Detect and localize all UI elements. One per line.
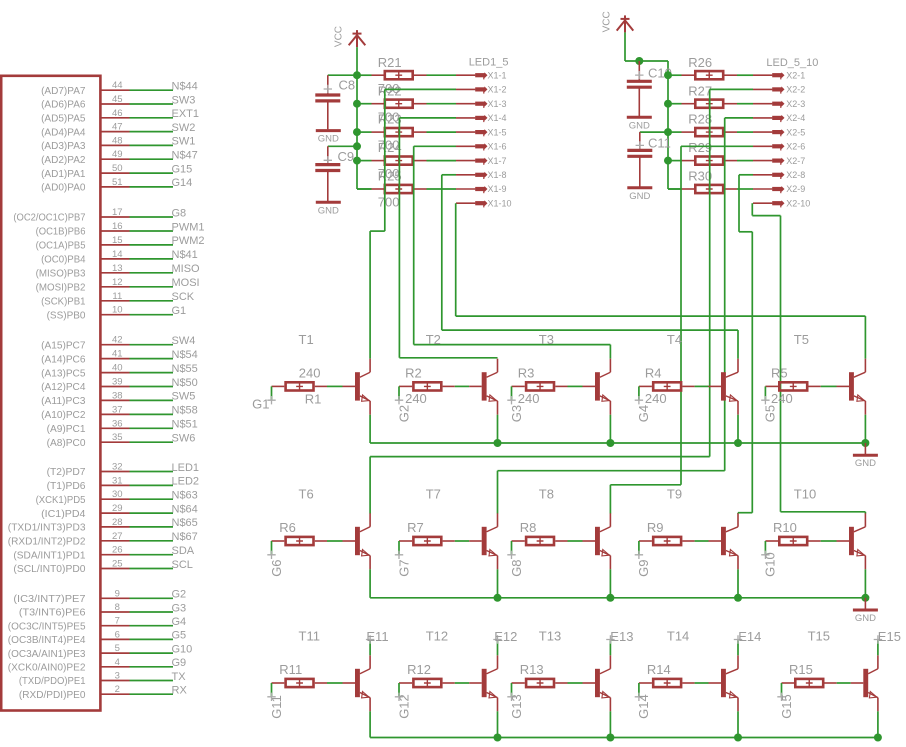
ground GND below C10 (627, 117, 652, 131)
IC pin 7 (OC3C/INT5)PE5 net G4 (8, 616, 186, 633)
connector pin X2-4 (753, 115, 785, 122)
svg-text:T13: T13 (539, 629, 561, 644)
IC pin 17 (OC2/OC1C)PB7 net G8 (13, 207, 186, 224)
transistor T12 (482, 655, 498, 711)
resistor R23 (700) (357, 128, 427, 136)
svg-text:G1: G1 (172, 305, 187, 317)
svg-text:T2: T2 (426, 332, 441, 347)
svg-text:PWM2: PWM2 (172, 235, 205, 247)
transistor T11 (355, 655, 370, 711)
net stub G15 (781, 683, 783, 697)
svg-text:(IC1)PD4: (IC1)PD4 (41, 508, 86, 520)
transistor T8 (595, 513, 610, 569)
resistor R15 (782, 679, 837, 687)
svg-text:G10: G10 (763, 552, 778, 577)
wire base of T15 (837, 682, 864, 684)
label G13 (507, 693, 515, 701)
label G12 (395, 693, 403, 701)
svg-text:G10: G10 (172, 643, 193, 655)
net stub E14 (734, 635, 742, 655)
net stub G5 (764, 386, 766, 400)
svg-text:(AD6)PA6: (AD6)PA6 (41, 99, 86, 111)
junction trunk-left at C9 (353, 142, 361, 150)
resistor R12 (399, 679, 455, 687)
junction rail row 2 at T8 (606, 594, 614, 602)
svg-text:14: 14 (112, 249, 123, 260)
net X2-8 to T9 collector (738, 175, 753, 514)
svg-text:T4: T4 (667, 332, 682, 347)
net stub G6 (271, 541, 273, 555)
transistor T13 (595, 655, 610, 711)
net stub G12 (398, 683, 400, 697)
wire VCC right horizontal (625, 60, 668, 62)
svg-text:G4: G4 (172, 616, 187, 628)
svg-text:45: 45 (112, 94, 123, 105)
svg-text:R6: R6 (279, 520, 296, 535)
net X1-4 to T2 collector (399, 118, 497, 358)
net stub G3 (511, 386, 513, 400)
label G6 (267, 551, 275, 559)
IC pin 31 (T1)PD6 net LED2 (47, 475, 199, 492)
wire emitter T8 to rail (609, 569, 611, 598)
svg-text:(A12)PC4: (A12)PC4 (41, 381, 86, 393)
resistor R8 (512, 537, 568, 545)
svg-text:X1-6: X1-6 (488, 142, 507, 152)
svg-text:(AD1)PA1: (AD1)PA1 (41, 168, 86, 180)
svg-text:N$41: N$41 (172, 249, 198, 261)
svg-text:32: 32 (112, 462, 123, 473)
svg-text:SW4: SW4 (172, 335, 196, 347)
wire VCC trunk right (667, 61, 669, 189)
net X2-2 to T6 collector (370, 89, 753, 513)
svg-text:GND: GND (855, 613, 876, 624)
net X1-10 to T5 collector (456, 203, 866, 359)
svg-text:PWM1: PWM1 (172, 221, 205, 233)
transistor T4 (721, 359, 738, 415)
svg-text:N$55: N$55 (172, 363, 198, 375)
resistor R21 (700) (357, 71, 427, 79)
transistor T5 (849, 359, 865, 415)
svg-text:R15: R15 (789, 662, 813, 677)
net stub G10 (764, 541, 766, 555)
IC pin 41 (A14)PC6 net N$54 (41, 349, 198, 366)
svg-text:X2-6: X2-6 (786, 142, 805, 152)
resistor R3 (512, 382, 568, 390)
svg-text:EXT1: EXT1 (172, 108, 200, 120)
svg-text:10: 10 (112, 305, 123, 316)
ground GND below C9 (316, 202, 341, 216)
resistor R27 (668, 100, 737, 108)
IC pin 32 (T2)PD7 net LED1 (47, 462, 199, 479)
svg-text:12: 12 (112, 277, 123, 288)
svg-text:47: 47 (112, 122, 123, 133)
svg-text:GND: GND (318, 205, 339, 216)
connector pin X1-1 (456, 72, 488, 79)
wire R23 to X1-5 (427, 131, 457, 133)
connector pin X2-9 (753, 186, 785, 193)
svg-text:G3: G3 (509, 405, 524, 422)
svg-text:C11: C11 (648, 136, 671, 151)
IC pin 29 (IC1)PD4 net N$64 (41, 503, 198, 520)
svg-text:(T3/INT6)PE6: (T3/INT6)PE6 (19, 607, 86, 619)
svg-text:27: 27 (112, 531, 123, 542)
junction trunk-left at R23 (353, 128, 361, 136)
wire base of T3 (568, 385, 596, 387)
svg-text:G2: G2 (396, 405, 411, 422)
connector pin X1-6 (456, 143, 488, 150)
IC pin 13 (MISO)PB3 net MISO (36, 263, 200, 280)
svg-text:28: 28 (112, 517, 123, 528)
svg-text:N$67: N$67 (172, 531, 198, 543)
svg-text:T10: T10 (794, 487, 816, 502)
IC pin 35 (A8)PC0 net SW6 (47, 432, 196, 449)
svg-text:G9: G9 (636, 559, 651, 576)
wire base of T5 (821, 385, 849, 387)
svg-text:(OC0)PB4: (OC0)PB4 (41, 254, 86, 266)
svg-text:36: 36 (112, 418, 123, 429)
wire emitter T7 to rail (497, 569, 499, 598)
junction trunk-left at R24 (353, 157, 361, 165)
net stub G13 (511, 683, 513, 697)
connector pin X1-5 (456, 129, 488, 136)
net X2-10 to T10 collector (752, 203, 865, 513)
svg-text:R25: R25 (378, 169, 402, 184)
svg-text:(SS)PB0: (SS)PB0 (47, 309, 86, 321)
junction rail row 2 at T9 (734, 594, 742, 602)
svg-text:R3: R3 (518, 365, 535, 380)
capacitor C10 (627, 61, 652, 116)
svg-text:R21: R21 (378, 55, 402, 70)
wire emitter T9 to rail (737, 569, 739, 598)
wire VCC right down (624, 32, 626, 61)
svg-text:T15: T15 (808, 629, 830, 644)
svg-text:240: 240 (645, 391, 667, 406)
svg-text:SW2: SW2 (172, 122, 196, 134)
svg-text:(OC3A/AIN1)PE3: (OC3A/AIN1)PE3 (8, 648, 86, 660)
IC pin 8 (T3/INT6)PE6 net G3 (19, 602, 186, 619)
svg-text:VCC: VCC (334, 26, 345, 47)
svg-text:(A10)PC2: (A10)PC2 (41, 409, 86, 421)
svg-text:TX: TX (172, 671, 187, 683)
IC pin 9 (IC3/INT7)PE7 net G2 (13, 588, 186, 605)
svg-text:R13: R13 (520, 662, 544, 677)
svg-text:240: 240 (518, 391, 540, 406)
IC pin 42 (A15)PC7 net SW4 (41, 335, 195, 352)
resistor R28 (668, 128, 737, 136)
svg-text:G14: G14 (172, 177, 193, 189)
IC pin 5 (OC3A/AIN1)PE3 net G10 (8, 643, 192, 660)
IC pin 2 (RXD/PDI)PE0 net RX (19, 684, 188, 701)
svg-text:16: 16 (112, 221, 123, 232)
svg-text:(AD7)PA7: (AD7)PA7 (41, 85, 86, 97)
svg-text:(A13)PC5: (A13)PC5 (41, 367, 86, 379)
label G15 (777, 693, 785, 701)
svg-text:(AD3)PA3: (AD3)PA3 (41, 140, 86, 152)
svg-text:40: 40 (112, 363, 123, 374)
IC pin 6 (OC3B/INT4)PE4 net G5 (8, 629, 186, 646)
wire emitter T6 to rail (369, 569, 371, 598)
svg-text:G9: G9 (172, 657, 187, 669)
svg-text:RX: RX (172, 685, 188, 697)
IC pin 47 (AD4)PA4 net SW2 (41, 122, 195, 139)
IC pin 16 (OC1B)PB6 net PWM1 (36, 221, 205, 238)
svg-text:T6: T6 (299, 487, 314, 502)
svg-text:(MISO)PB3: (MISO)PB3 (36, 268, 86, 280)
resistor R4 (639, 382, 695, 390)
wire base of T12 (455, 682, 482, 684)
svg-text:X2-4: X2-4 (786, 113, 805, 123)
wire base of T13 (568, 682, 596, 684)
connector pin X2-2 (753, 86, 785, 93)
wire R26 to X2-1 (737, 74, 753, 76)
svg-text:(XCK0/AIN0)PE2: (XCK0/AIN0)PE2 (8, 662, 86, 674)
IC pin 3 (TXD/PDO)PE1 net TX (19, 671, 186, 688)
svg-text:N$50: N$50 (172, 377, 198, 389)
svg-text:X1-1: X1-1 (488, 70, 507, 80)
svg-text:(AD2)PA2: (AD2)PA2 (41, 154, 86, 166)
wire base of T8 (568, 540, 596, 542)
IC pin 10 (SS)PB0 net G1 (47, 305, 187, 322)
junction trunk-right at R29 (664, 157, 672, 165)
label G2 (395, 396, 403, 404)
net X1-2 to T1 collector (370, 89, 456, 358)
connector pin X1-4 (456, 115, 488, 122)
svg-text:G3: G3 (172, 602, 187, 614)
junction trunk-right at R27 (664, 100, 672, 108)
svg-text:R22: R22 (378, 83, 402, 98)
IC pin 39 (A12)PC4 net N$50 (41, 377, 198, 394)
svg-text:R2: R2 (405, 365, 422, 380)
wire R21 to X1-1 (427, 74, 457, 76)
IC pin 4 (XCK0/AIN0)PE2 net G9 (8, 657, 186, 674)
wire R29 to X2-7 (737, 160, 753, 162)
junction rail row 3 at T14 (734, 734, 742, 742)
svg-text:(A14)PC6: (A14)PC6 (41, 353, 86, 365)
svg-text:SDA: SDA (172, 545, 195, 557)
svg-text:T9: T9 (667, 487, 682, 502)
svg-text:LED1_5: LED1_5 (469, 57, 509, 69)
svg-text:R29: R29 (688, 140, 712, 155)
svg-text:240: 240 (771, 391, 793, 406)
svg-text:N$54: N$54 (172, 349, 198, 361)
svg-text:39: 39 (112, 377, 123, 388)
IC pin 40 (A13)PC5 net N$55 (41, 363, 198, 380)
resistor R29 (668, 157, 737, 165)
svg-text:51: 51 (112, 177, 123, 188)
svg-text:N$47: N$47 (172, 150, 198, 162)
IC pin 14 (OC0)PB4 net N$41 (41, 249, 198, 266)
resistor R26 (668, 71, 737, 79)
svg-text:(OC1B)PB6: (OC1B)PB6 (36, 226, 86, 238)
svg-text:(OC2/OC1C)PB7: (OC2/OC1C)PB7 (13, 212, 85, 224)
IC pin 12 (MOSI)PB2 net MOSI (36, 277, 200, 294)
net X2-4 to T7 collector (498, 118, 754, 514)
wire to R25 (357, 188, 372, 190)
label G5 (761, 396, 769, 404)
label G3 (507, 396, 515, 404)
svg-text:VCC: VCC (602, 11, 613, 32)
svg-text:R28: R28 (688, 112, 712, 127)
junction rail row 1 at T3 (606, 439, 614, 447)
resistor R5 (765, 382, 820, 390)
svg-text:X1-4: X1-4 (488, 113, 507, 123)
svg-text:38: 38 (112, 390, 123, 401)
wire to R30 (668, 188, 682, 190)
wire emitter T2 to rail (497, 415, 499, 443)
svg-text:49: 49 (112, 149, 123, 160)
resistor R22 (700) (357, 100, 427, 108)
net X1-8 to T4 collector (442, 175, 738, 359)
svg-text:MOSI: MOSI (172, 277, 200, 289)
wire base of T14 (695, 682, 721, 684)
wire emitter T13 to rail (609, 711, 611, 737)
svg-text:X2-5: X2-5 (786, 127, 805, 137)
svg-text:G7: G7 (396, 559, 411, 576)
label G7 (395, 551, 403, 559)
svg-text:MISO: MISO (172, 263, 201, 275)
IC pin 44 (AD7)PA7 net N$44 (41, 80, 198, 97)
svg-text:T1: T1 (299, 332, 314, 347)
svg-text:R12: R12 (407, 662, 431, 677)
resistor R9 (639, 537, 695, 545)
svg-text:E11: E11 (366, 629, 388, 644)
svg-text:G11: G11 (269, 695, 284, 719)
svg-text:(SCK)PB1: (SCK)PB1 (41, 296, 86, 308)
svg-text:R11: R11 (279, 662, 302, 677)
connector pin X1-7 (456, 158, 488, 165)
junction rail row 1 at T2 (494, 439, 502, 447)
connector pin X2-3 (753, 101, 785, 108)
transistor T3 (595, 359, 610, 415)
svg-text:N$58: N$58 (172, 405, 198, 417)
transistor T2 (482, 359, 498, 415)
connector pin X1-3 (456, 101, 488, 108)
wire base of T1 (327, 385, 355, 387)
svg-text:(T1)PD6: (T1)PD6 (47, 480, 86, 492)
svg-text:LED1: LED1 (172, 462, 200, 474)
svg-text:44: 44 (112, 80, 123, 91)
svg-text:T12: T12 (426, 629, 448, 644)
svg-text:SCL: SCL (172, 559, 193, 571)
wire emitter T12 to rail (497, 711, 499, 737)
junction rail row 3 at T12 (494, 734, 502, 742)
resistor R14 (639, 679, 695, 687)
wire base of T6 (327, 540, 355, 542)
svg-text:R14: R14 (647, 662, 671, 677)
resistor R10 (765, 537, 820, 545)
wire emitter T1 to rail (369, 415, 371, 443)
svg-text:(OC3B/INT4)PE4: (OC3B/INT4)PE4 (8, 634, 86, 646)
svg-text:17: 17 (112, 207, 123, 218)
wire VCC trunk left (356, 47, 358, 189)
wire emitter rail row 2 (370, 597, 865, 599)
net stub G11 (271, 683, 273, 697)
junction rail row 1 at T5 (861, 439, 869, 447)
IC pin 49 (AD2)PA2 net N$47 (41, 149, 198, 166)
svg-text:(A11)PC3: (A11)PC3 (41, 395, 86, 407)
svg-text:6: 6 (115, 629, 120, 640)
svg-text:LED2: LED2 (172, 476, 200, 488)
wire emitter T3 to rail (609, 415, 611, 443)
wire C9 to trunk (328, 145, 357, 147)
svg-text:9: 9 (115, 588, 120, 599)
svg-text:(TXD/PDO)PE1: (TXD/PDO)PE1 (19, 675, 86, 687)
junction rail row 2 at T10 (861, 594, 869, 602)
wire emitter rail row 1 (370, 442, 865, 444)
connector pin X2-5 (753, 129, 785, 136)
resistor R1 (272, 382, 328, 390)
ground GND rail row 2 (864, 598, 866, 610)
svg-text:R23: R23 (378, 112, 402, 127)
transistor T9 (721, 513, 738, 569)
svg-text:R9: R9 (647, 520, 664, 535)
resistor R11 (272, 679, 328, 687)
svg-text:X2-8: X2-8 (786, 170, 805, 180)
wire C11 to trunk (640, 131, 668, 133)
junction rail row 1 at T4 (734, 439, 742, 447)
svg-text:X1-10: X1-10 (488, 198, 512, 208)
svg-text:G15: G15 (172, 163, 193, 175)
resistor R2 (399, 382, 455, 390)
IC pin 30 (XCK1)PD5 net N$63 (36, 489, 198, 506)
junction rail row 3 at T13 (606, 734, 614, 742)
net stub G1 (271, 386, 273, 400)
IC pin 51 (AD0)PA0 net G14 (41, 177, 192, 194)
net stub E13 (606, 635, 614, 655)
transistor T1 (355, 359, 370, 415)
ground GND rail row 1 (864, 443, 866, 455)
junction trunk-left at R22 (353, 100, 361, 108)
svg-text:SCK: SCK (172, 291, 195, 303)
svg-text:G14: G14 (636, 694, 651, 719)
net stub G8 (511, 541, 513, 555)
svg-text:8: 8 (115, 602, 120, 613)
svg-text:T7: T7 (426, 487, 441, 502)
svg-text:SW5: SW5 (172, 391, 196, 403)
net stub E11 (366, 635, 374, 655)
svg-text:GND: GND (318, 134, 339, 145)
IC pin 25 (SCL/INT0)PD0 net SCL (13, 559, 193, 576)
svg-text:N$64: N$64 (172, 503, 198, 515)
connector pin X1-8 (456, 172, 488, 179)
wire base of T11 (327, 682, 355, 684)
svg-text:R5: R5 (771, 365, 788, 380)
svg-text:G8: G8 (172, 207, 187, 219)
svg-text:C8: C8 (339, 78, 356, 93)
resistor R30 (668, 185, 737, 193)
label G10 (761, 551, 769, 559)
svg-text:50: 50 (112, 163, 123, 174)
wire emitter T11 to rail (369, 711, 371, 737)
svg-text:G13: G13 (509, 694, 524, 719)
svg-text:(RXD/PDI)PE0: (RXD/PDI)PE0 (19, 689, 86, 701)
junction trunk-left at R21 (353, 71, 361, 79)
IC pin 37 (A10)PC2 net N$58 (41, 404, 198, 421)
svg-text:X2-10: X2-10 (786, 198, 810, 208)
svg-text:11: 11 (112, 291, 122, 302)
svg-text:25: 25 (112, 559, 123, 570)
wire base of T2 (455, 385, 482, 387)
wire C8 to trunk (328, 74, 357, 76)
net X1-6 to T3 collector (414, 146, 611, 358)
wire emitter T5 to rail (864, 415, 866, 443)
power VCC symbol (left) (349, 30, 366, 47)
svg-text:26: 26 (112, 545, 123, 556)
svg-text:(MOSI)PB2: (MOSI)PB2 (36, 282, 86, 294)
label G9 (635, 551, 643, 559)
svg-text:GND: GND (855, 458, 876, 469)
wire R28 to X2-5 (737, 131, 753, 133)
